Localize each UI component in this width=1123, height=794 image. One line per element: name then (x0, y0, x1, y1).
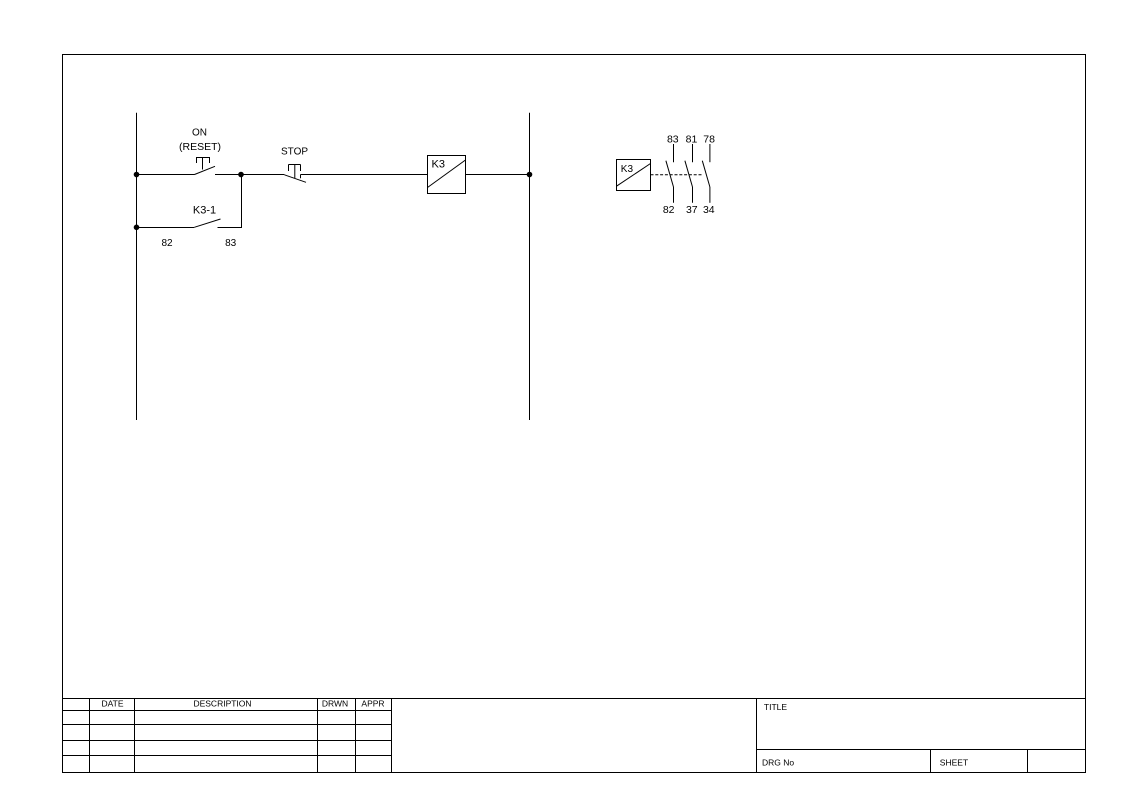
svg-text:82: 82 (663, 204, 675, 216)
svg-text:82: 82 (161, 238, 173, 249)
contact K3 pole 1: blade (666, 161, 674, 187)
svg-text:K3: K3 (432, 158, 445, 170)
svg-text:APPR: APPR (361, 699, 384, 709)
wire: K3-1 to left rail (137, 227, 195, 229)
svg-text:DRWN: DRWN (322, 699, 348, 709)
contact K3 pole 1: bottom terminal 82 (673, 187, 675, 203)
svg-text:81: 81 (686, 133, 698, 145)
contact K3 pole 2: top terminal 81 (692, 144, 694, 162)
svg-text:K3: K3 (621, 164, 634, 175)
mechanical linkage (dashed) (651, 174, 703, 176)
svg-text:TITLE: TITLE (764, 702, 787, 712)
svg-text:DRG No: DRG No (762, 758, 794, 768)
svg-text:ON: ON (192, 128, 207, 139)
svg-text:37: 37 (686, 204, 698, 216)
wire: STOP to relay coil K3 (301, 174, 428, 176)
svg-text:83: 83 (667, 133, 679, 145)
pushbutton STOP actuator button (289, 165, 301, 179)
STOP contact fixed terminal tick (300, 175, 302, 179)
junction dot: left rail / main rung (134, 172, 140, 178)
branch wire: down leg to K3-1 terminal (218, 227, 243, 229)
wire: node A to STOP contact (241, 174, 284, 176)
contact K3 pole 3: blade (702, 161, 710, 187)
relay coil K3 box (428, 156, 466, 194)
svg-text:DESCRIPTION: DESCRIPTION (193, 699, 251, 709)
contact K3 pole 2: blade (685, 161, 693, 187)
svg-text:78: 78 (703, 133, 715, 145)
auxiliary contact K3-1, NO blade (194, 219, 220, 227)
wire: ON contact to node A (215, 174, 241, 176)
svg-text:DATE: DATE (101, 699, 123, 709)
pushbutton ON (RESET) actuator button (197, 157, 210, 170)
left supply rail (136, 113, 138, 420)
contact K3 pole 2: bottom terminal 37 (692, 187, 694, 203)
title block: revision table grid (63, 699, 392, 773)
contactor K3 coil box (617, 160, 651, 191)
right supply rail (529, 113, 531, 420)
junction dot: left rail / branch (134, 225, 140, 231)
relay coil K3 diagonal (428, 160, 466, 188)
svg-text:34: 34 (703, 204, 715, 216)
svg-text:(RESET): (RESET) (179, 141, 221, 153)
title block: TITLE field box (757, 699, 1086, 773)
title block: middle blank panel top edge (392, 698, 757, 700)
svg-text:STOP: STOP (281, 147, 308, 158)
junction dot: right rail / main rung (527, 172, 533, 178)
contact K3 pole 3: top terminal 78 (709, 144, 711, 162)
branch wire: node A down (241, 175, 243, 228)
wire: coil K3 to right rail (466, 174, 530, 176)
pushbutton ON (RESET), NO contact blade (195, 166, 216, 174)
svg-text:83: 83 (225, 238, 237, 249)
pushbutton STOP, NC contact blade (284, 175, 306, 183)
svg-text:SHEET: SHEET (940, 757, 968, 767)
contact K3 pole 1: top terminal 83 (673, 144, 675, 162)
node A junction dot (238, 172, 244, 178)
contactor K3 diagonal (617, 164, 651, 187)
contact K3 pole 3: bottom terminal 34 (709, 187, 711, 203)
wire: left rail to ON contact (137, 174, 195, 176)
svg-text:K3-1: K3-1 (193, 205, 216, 217)
